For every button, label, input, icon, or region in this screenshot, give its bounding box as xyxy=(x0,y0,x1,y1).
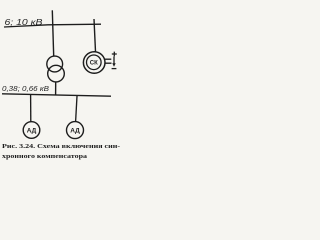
svg-text:АД: АД xyxy=(27,128,37,135)
wire left motor feeder xyxy=(30,95,32,122)
synchronous compensator SK outer circle xyxy=(83,52,105,74)
minus sign xyxy=(112,68,117,70)
svg-text:СК: СК xyxy=(90,61,98,67)
svg-text:0,38; 0,66 кВ: 0,38; 0,66 кВ xyxy=(2,86,49,93)
svg-text:хронного компенсатора: хронного компенсатора xyxy=(2,153,88,160)
wire transformer to low busbar xyxy=(55,82,57,95)
motor AD right circle xyxy=(67,122,84,139)
synchronous compensator SK inner circle xyxy=(87,55,102,70)
motor AD left circle xyxy=(23,122,40,139)
arrow down xyxy=(113,57,115,65)
excitation stub upper xyxy=(105,58,112,60)
svg-text:АД: АД xyxy=(70,128,80,135)
svg-text:Рис. 3.24. Схема включения син: Рис. 3.24. Схема включения син- xyxy=(2,143,120,150)
busbar bottom xyxy=(2,94,111,96)
wire SK feeder xyxy=(94,19,96,52)
wire right motor feeder xyxy=(76,96,77,122)
busbar top xyxy=(4,24,101,27)
plus sign xyxy=(112,52,117,57)
transformer T1 bottom winding xyxy=(48,65,65,82)
transformer T1 top winding xyxy=(47,56,63,72)
wire transformer feeder xyxy=(52,10,53,56)
excitation stub lower xyxy=(105,62,112,64)
